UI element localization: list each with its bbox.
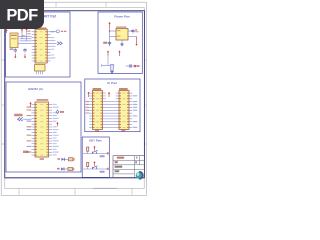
LED circuit row 2: net label text bbox=[57, 168, 60, 170]
C6 red polarity marks bbox=[134, 65, 136, 67]
wire D2 to R2 bbox=[64, 168, 68, 170]
switch SW2 bbox=[92, 167, 94, 169]
wire bus bit 6 bbox=[106, 115, 116, 117]
wire flag to U3 bbox=[23, 118, 32, 120]
power flag P1 (lower area) bbox=[107, 51, 109, 56]
wire key row 2 bbox=[83, 168, 107, 170]
IC U5 bbox=[119, 91, 129, 130]
power flag (left of U5) bbox=[108, 93, 110, 97]
svg-text:IC Part: IC Part bbox=[107, 81, 117, 85]
sheet inner border (blue) bbox=[5, 11, 145, 178]
svg-text:Power Part: Power Part bbox=[114, 15, 129, 19]
title block table bbox=[113, 156, 145, 178]
wire to U2 VIN bbox=[110, 30, 117, 32]
power flag +5V bbox=[109, 23, 111, 29]
sheet number text bbox=[136, 157, 137, 159]
U1 left-side pin number texts bbox=[27, 31, 30, 32]
wire lower rail bbox=[102, 64, 115, 66]
J1 pin stubs bbox=[35, 71, 37, 74]
wire bus bit 1 bbox=[106, 101, 116, 103]
wire Y1 to U1 (XO) bbox=[18, 42, 32, 44]
wire bus VCC rail bbox=[20, 38, 32, 40]
junction node bbox=[109, 30, 110, 31]
section box: IC Part bbox=[85, 79, 140, 132]
net mark right (row 1) bbox=[107, 152, 109, 154]
wire U2 VOUT bbox=[128, 30, 133, 32]
title block column lines bbox=[133, 156, 135, 178]
wire key row 1 bbox=[83, 153, 107, 155]
wire bus bit 5 bbox=[106, 112, 116, 114]
wire Y1 to U1 (XI) bbox=[18, 36, 32, 38]
wire U1 RX out bbox=[51, 42, 57, 44]
wire U2 pin to down flag bbox=[128, 36, 137, 38]
power flag 2 (right of U3) bbox=[57, 123, 59, 127]
right column net label texts bbox=[133, 95, 138, 96]
power flag GND dn1 bbox=[14, 54, 16, 58]
section box: KEY Part bbox=[82, 137, 109, 177]
net label marks (red) bbox=[61, 31, 63, 32]
zone tick marks bbox=[1, 2, 146, 195]
diode D1 bbox=[61, 158, 64, 161]
capacitor C2 bbox=[24, 48, 26, 50]
flag label text bbox=[14, 114, 22, 116]
sheet zone band inner frame bbox=[5, 7, 144, 188]
regulator U2 AMS1117 bbox=[116, 29, 128, 41]
U2 value text bbox=[116, 27, 127, 28]
R2 red mark bbox=[73, 168, 74, 171]
net label +3V3 (red) bbox=[135, 29, 137, 30]
USB connector J1 bbox=[35, 65, 46, 72]
right pin net label texts bbox=[53, 104, 57, 105]
wire bus bit 7 bbox=[106, 118, 116, 120]
svg-text:PDF: PDF bbox=[6, 6, 38, 24]
power flag P2 (lower area) bbox=[119, 51, 121, 56]
wire lower right rail bbox=[126, 65, 141, 67]
capacitor C3 (input) bbox=[109, 41, 111, 42]
U5 value text bbox=[119, 88, 128, 90]
section box: USB to UART Part bbox=[6, 12, 70, 77]
power flag VCC3 bbox=[26, 29, 28, 32]
IC U1 CH340 (USB-UART bridge) bbox=[35, 29, 47, 63]
diode D2 bbox=[61, 167, 64, 170]
power flag down (right) bbox=[136, 37, 138, 46]
size text A4 bbox=[115, 161, 118, 163]
title block row lines bbox=[113, 159, 145, 161]
capacitor C1 bbox=[14, 48, 16, 50]
SW2 label text bbox=[100, 171, 105, 173]
power flag (left of U4) bbox=[88, 93, 90, 97]
power flag (key row 1) bbox=[94, 147, 96, 151]
C3 value text bbox=[103, 42, 107, 44]
red mark below U5 bbox=[121, 130, 125, 131]
wire D1 to R1 bbox=[64, 158, 68, 160]
capacitor C6 bbox=[129, 64, 131, 67]
crystal Y1 bbox=[10, 33, 18, 48]
wire bus bit 3 bbox=[106, 106, 116, 108]
capacitor C4 (output) bbox=[132, 29, 134, 30]
power flag VCC1 bbox=[6, 30, 8, 33]
title text bbox=[117, 157, 124, 159]
lower-left label text bbox=[23, 151, 28, 153]
resistor R4 bbox=[87, 162, 89, 166]
left pin net label texts bbox=[27, 107, 32, 108]
wire U2 GND stub bbox=[121, 40, 123, 44]
LED circuit row 1: net label text bbox=[57, 158, 60, 160]
no-connect node symbol bbox=[56, 30, 59, 33]
resistor R3 bbox=[87, 147, 89, 151]
switch SW1 bbox=[92, 152, 94, 154]
label under U3 bbox=[40, 158, 45, 160]
svg-text:ESP32 (4): ESP32 (4) bbox=[28, 87, 42, 91]
ground under C5 bbox=[111, 71, 113, 72]
wire bus bit 4 bbox=[106, 109, 116, 111]
SW1 label text bbox=[100, 155, 105, 157]
resistor R1 bbox=[68, 158, 73, 161]
rev cell text bbox=[135, 161, 137, 163]
C1 value text bbox=[10, 48, 14, 50]
power flag GND dn2 bbox=[24, 54, 26, 58]
sheet outer frame bbox=[1, 2, 146, 195]
ground under U2 bbox=[121, 43, 123, 44]
section box: ESP32 bbox=[6, 82, 81, 172]
wire bus bit 10 bbox=[106, 126, 116, 128]
svg-text:KEY Part: KEY Part bbox=[89, 139, 101, 143]
section box: Power Part bbox=[98, 12, 142, 74]
red mark below U4 bbox=[95, 130, 99, 131]
U4 value text bbox=[93, 88, 102, 90]
R1 red mark bbox=[73, 158, 74, 161]
PDF badge overlay bbox=[0, 0, 44, 29]
resistor R2 bbox=[68, 167, 73, 170]
Y1 value text bbox=[11, 35, 17, 36]
power flag (key row 2) bbox=[94, 162, 96, 166]
U1 right-side net label texts bbox=[51, 31, 55, 32]
company logo bbox=[136, 172, 143, 179]
U3 value text bbox=[37, 99, 49, 100]
wire bus bit 8 bbox=[106, 121, 116, 123]
file text bbox=[115, 170, 120, 172]
left column net label texts bbox=[86, 101, 90, 102]
wire bus bit 2 bbox=[106, 104, 116, 106]
net flag (left, RXD) bbox=[18, 117, 23, 121]
wire to U2 EN bbox=[110, 36, 117, 38]
date text bbox=[115, 166, 123, 168]
net label marks right of node bbox=[60, 111, 64, 113]
label U1 value text bbox=[38, 28, 47, 29]
module U3 ESP32-WROOM bbox=[35, 102, 49, 157]
zone number mark bottom bbox=[93, 187, 117, 190]
wire +5V rail vertical bbox=[109, 29, 111, 47]
wire bus bit 9 bbox=[106, 124, 116, 126]
power flag 3V3 (U3 top-left) bbox=[30, 103, 32, 107]
power flag VCC2 bbox=[21, 29, 23, 32]
wire U1 TX out bbox=[51, 31, 57, 33]
IC U4 bbox=[93, 91, 103, 130]
net flag chevrons bbox=[57, 42, 62, 45]
net mark right (row 2) bbox=[107, 168, 109, 170]
net node symbol (right of U3) bbox=[56, 110, 59, 113]
capacitor C5 (electrolytic) bbox=[110, 64, 113, 70]
